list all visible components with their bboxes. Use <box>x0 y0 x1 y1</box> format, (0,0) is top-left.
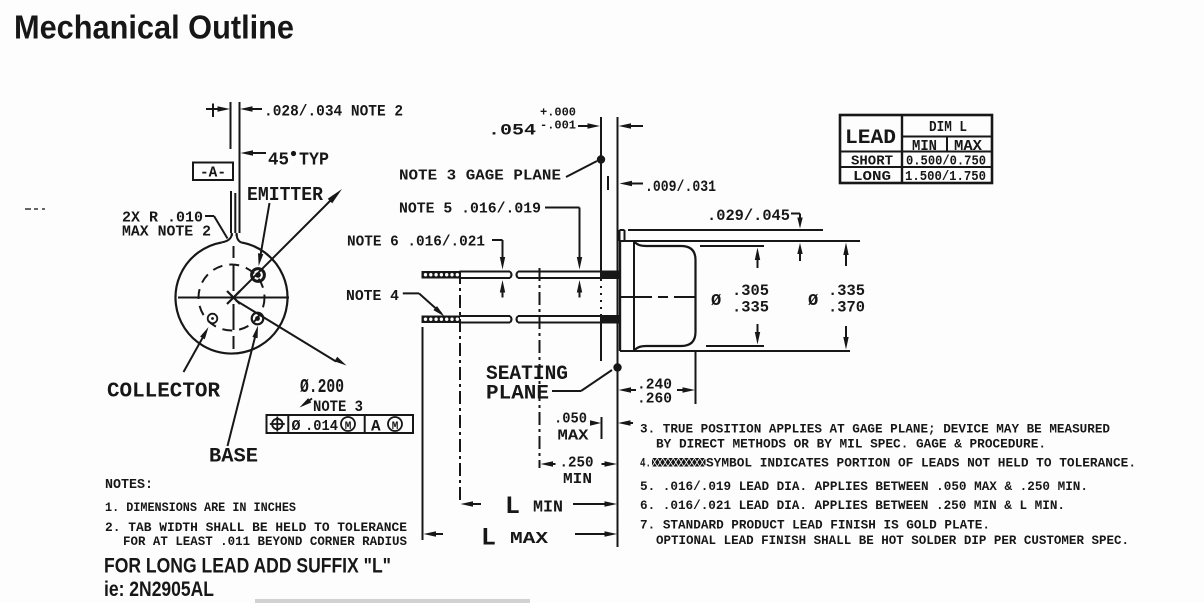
svg-text:A: A <box>371 418 381 436</box>
svg-text:NOTE 4: NOTE 4 <box>346 288 399 305</box>
svg-text:MAX: MAX <box>954 138 982 155</box>
svg-text:L: L <box>505 492 520 521</box>
svg-text:1. DIMENSIONS ARE IN INCHES: 1. DIMENSIONS ARE IN INCHES <box>105 500 296 515</box>
svg-text:+.000: +.000 <box>540 106 576 120</box>
svg-text:.305: .305 <box>732 282 769 300</box>
svg-text:SHORT: SHORT <box>851 154 893 170</box>
svg-text:Ø: Ø <box>292 418 301 435</box>
svg-text:OPTIONAL LEAD FINISH SHALL BE: OPTIONAL LEAD FINISH SHALL BE HOT SOLDER… <box>656 533 1129 548</box>
svg-text:BASE: BASE <box>209 446 258 469</box>
svg-text:NOTE 5 .016/.019: NOTE 5 .016/.019 <box>399 201 541 218</box>
svg-text:.028/.034 NOTE 2: .028/.034 NOTE 2 <box>264 103 403 121</box>
svg-text:1.500/1.750: 1.500/1.750 <box>905 169 986 185</box>
svg-text:7. STANDARD PRODUCT LEAD FINIS: 7. STANDARD PRODUCT LEAD FINISH IS GOLD … <box>640 518 990 533</box>
svg-text:-A-: -A- <box>200 165 226 182</box>
svg-text:0.500/0.750: 0.500/0.750 <box>906 154 986 170</box>
svg-text:.014: .014 <box>305 418 338 435</box>
svg-text:.029/.045: .029/.045 <box>707 207 790 225</box>
svg-text:.335: .335 <box>828 282 865 300</box>
svg-text:MIN: MIN <box>563 471 592 488</box>
svg-text:DIM L: DIM L <box>929 119 967 136</box>
svg-text:MAX: MAX <box>558 428 589 445</box>
svg-text:.335: .335 <box>732 299 769 317</box>
svg-text:FOR LONG LEAD ADD SUFFIX "L": FOR LONG LEAD ADD SUFFIX "L" <box>104 555 391 578</box>
svg-text:4.: 4. <box>640 456 651 471</box>
svg-text:COLLECTOR: COLLECTOR <box>107 381 220 404</box>
svg-text:NOTE 3 GAGE PLANE: NOTE 3 GAGE PLANE <box>399 168 561 185</box>
svg-text:3. TRUE POSITION APPLIES AT GA: 3. TRUE POSITION APPLIES AT GAGE PLANE; … <box>640 422 1110 437</box>
svg-text:TYP: TYP <box>299 151 329 171</box>
svg-text:.250: .250 <box>560 455 594 472</box>
svg-text:PLANE: PLANE <box>486 383 549 406</box>
svg-text:.370: .370 <box>828 299 865 317</box>
svg-text:2. TAB WIDTH SHALL BE HELD TO: 2. TAB WIDTH SHALL BE HELD TO TOLERANCE <box>105 520 407 535</box>
svg-text:5. .016/.019 LEAD DIA. APPLIES: 5. .016/.019 LEAD DIA. APPLIES BETWEEN .… <box>640 479 1088 494</box>
svg-text:NOTE 6 .016/.021: NOTE 6 .016/.021 <box>347 234 485 251</box>
svg-text:M: M <box>392 421 399 433</box>
svg-text:Ø.200: Ø.200 <box>300 376 344 398</box>
svg-text:LONG: LONG <box>853 169 891 185</box>
svg-text:M: M <box>345 421 352 433</box>
svg-text:.009/.031: .009/.031 <box>645 178 716 196</box>
svg-text:FOR AT LEAST .011 BEYOND CORNE: FOR AT LEAST .011 BEYOND CORNER RADIUS <box>123 534 407 549</box>
svg-text:ie: 2N2905AL: ie: 2N2905AL <box>104 578 214 601</box>
svg-text:Ø: Ø <box>711 292 721 311</box>
svg-text:EMITTER: EMITTER <box>247 184 324 206</box>
svg-text:Ø: Ø <box>808 292 818 311</box>
svg-text:.054: .054 <box>488 122 536 140</box>
svg-text:-.001: -.001 <box>540 119 576 133</box>
svg-text:SYMBOL INDICATES PORTION OF LE: SYMBOL INDICATES PORTION OF LEADS NOT HE… <box>706 456 1136 471</box>
svg-text:45: 45 <box>268 151 289 171</box>
svg-text:NOTES:: NOTES: <box>105 477 153 493</box>
svg-text:6. .016/.021 LEAD DIA. APPLIES: 6. .016/.021 LEAD DIA. APPLIES BETWEEN .… <box>640 498 1065 513</box>
svg-text:NOTE 3: NOTE 3 <box>313 398 363 416</box>
svg-text:MIN: MIN <box>912 138 937 155</box>
svg-text:.260: .260 <box>637 391 672 408</box>
svg-text:LEAD: LEAD <box>845 127 896 150</box>
svg-text:MAX NOTE 2: MAX NOTE 2 <box>122 224 211 241</box>
svg-text:MIN: MIN <box>533 499 563 518</box>
svg-text:Mechanical Outline: Mechanical Outline <box>14 9 294 46</box>
svg-text:L: L <box>481 524 496 553</box>
svg-text:BY DIRECT METHODS OR BY MIL SP: BY DIRECT METHODS OR BY MIL SPEC. GAGE &… <box>656 437 1046 452</box>
svg-text:MAX: MAX <box>510 530 549 549</box>
svg-text:.050: .050 <box>554 411 587 428</box>
